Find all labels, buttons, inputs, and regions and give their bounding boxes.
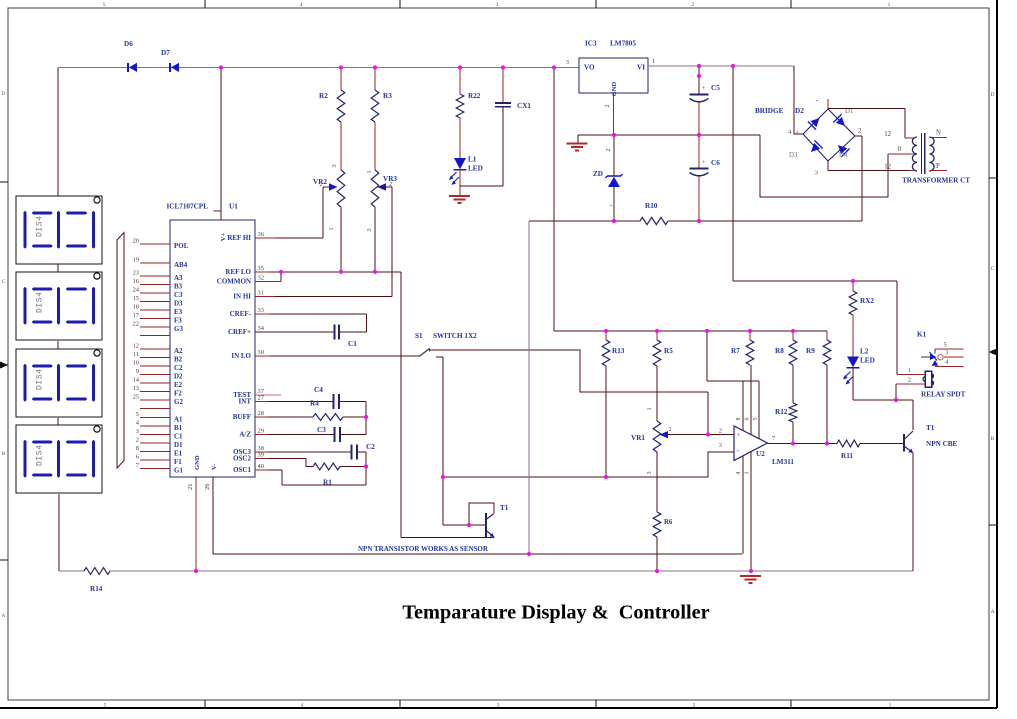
label sensor note bbox=[358, 545, 489, 553]
LED L1 light arrows bbox=[449, 172, 459, 185]
svg-text:1: 1 bbox=[366, 170, 373, 173]
resistor R12 bbox=[775, 403, 797, 422]
svg-text:4: 4 bbox=[736, 472, 742, 475]
resistor RX2 bbox=[849, 281, 874, 357]
resistor R9 bbox=[806, 331, 831, 444]
relay K1 contacts bbox=[921, 349, 943, 366]
svg-text:39: 39 bbox=[258, 452, 264, 459]
svg-text:N: N bbox=[936, 130, 941, 137]
svg-text:R7: R7 bbox=[731, 347, 740, 355]
svg-text:RELAY SPDT: RELAY SPDT bbox=[921, 391, 966, 399]
svg-text:U1: U1 bbox=[229, 203, 238, 211]
svg-text:1: 1 bbox=[908, 367, 911, 374]
svg-text:G2: G2 bbox=[174, 398, 183, 406]
IC U1 labels bbox=[166, 203, 238, 242]
resistor R22 bbox=[456, 68, 481, 119]
resistor R10 bbox=[640, 202, 668, 225]
svg-text:B2: B2 bbox=[174, 356, 183, 364]
svg-text:A/Z: A/Z bbox=[239, 431, 251, 439]
svg-text:E3: E3 bbox=[174, 308, 183, 316]
wire unreg mid drop (mauve) bbox=[528, 221, 530, 554]
ground (7805) bbox=[567, 135, 588, 151]
svg-text:NPN TRANSISTOR WORKS AS SENSOR: NPN TRANSISTOR WORKS AS SENSOR bbox=[358, 545, 489, 553]
svg-text:TRANSFORMER CT: TRANSFORMER CT bbox=[902, 177, 970, 185]
svg-text:1: 1 bbox=[889, 703, 892, 709]
svg-text:C: C bbox=[2, 279, 6, 285]
wire R11 to T1 base bbox=[860, 443, 899, 445]
bus (display bus) bbox=[117, 233, 124, 469]
svg-text:26: 26 bbox=[204, 484, 211, 490]
svg-text:D3: D3 bbox=[174, 300, 183, 308]
svg-text:L1: L1 bbox=[468, 156, 477, 164]
svg-text:R11: R11 bbox=[841, 452, 853, 460]
resistor R14 bbox=[84, 568, 110, 593]
svg-text:C1: C1 bbox=[348, 340, 357, 348]
svg-text:2: 2 bbox=[669, 426, 672, 433]
svg-text:Temparature Display & Control: Temparature Display & Controller bbox=[402, 602, 709, 624]
capacitor C4 bbox=[314, 386, 339, 409]
svg-text:3: 3 bbox=[497, 703, 500, 709]
wire S1 throw2 down bbox=[436, 357, 443, 525]
transistor T1 (sensor) bbox=[486, 504, 509, 537]
transformer right pins bbox=[930, 130, 948, 171]
svg-text:IN HI: IN HI bbox=[233, 293, 251, 301]
svg-text:C6: C6 bbox=[711, 159, 720, 167]
svg-text:12: 12 bbox=[884, 131, 891, 138]
svg-text:5: 5 bbox=[103, 2, 106, 8]
wire rail-221 bbox=[529, 220, 862, 222]
wire osc right tie bbox=[365, 402, 367, 435]
svg-text:OSC1: OSC1 bbox=[233, 466, 251, 474]
wire TEST stub pin37 bbox=[255, 394, 281, 396]
potentiometer VR3 bbox=[366, 170, 397, 232]
svg-text:R13: R13 bbox=[612, 347, 625, 355]
svg-text:3: 3 bbox=[331, 164, 338, 167]
svg-text:3: 3 bbox=[945, 350, 948, 357]
IC U1 box bbox=[170, 220, 255, 477]
capacitor CX1 bbox=[495, 68, 531, 111]
label 7805 pin3 bbox=[566, 59, 569, 66]
op-amp U2 LM311 bbox=[734, 426, 794, 466]
svg-text:R3: R3 bbox=[383, 92, 392, 100]
svg-text:C2: C2 bbox=[366, 443, 375, 451]
LED L2 bbox=[847, 348, 875, 368]
svg-text:D7: D7 bbox=[161, 49, 170, 57]
wire VR3 wiper to IN HI pin31 bbox=[255, 187, 392, 297]
svg-text:C3: C3 bbox=[317, 426, 326, 434]
svg-text:GND: GND bbox=[611, 81, 618, 96]
wire 7805 VI rail bbox=[648, 65, 794, 67]
7-segment display DIS4 (box 4) bbox=[16, 425, 102, 493]
svg-text:F3: F3 bbox=[174, 317, 182, 325]
wire U1 pin26 to sensor rail bbox=[212, 477, 214, 554]
resistor R3 bbox=[371, 68, 392, 123]
svg-text:1: 1 bbox=[888, 2, 891, 8]
border zone tick marks bbox=[205, 0, 791, 708]
svg-text:20: 20 bbox=[133, 237, 139, 244]
zener diode ZD bbox=[593, 135, 623, 221]
svg-text:32: 32 bbox=[258, 274, 264, 281]
svg-text:2: 2 bbox=[319, 181, 322, 188]
svg-text:3: 3 bbox=[136, 428, 139, 435]
svg-text:IC3: IC3 bbox=[585, 40, 597, 48]
svg-text:3: 3 bbox=[646, 471, 653, 474]
svg-text:17: 17 bbox=[133, 312, 140, 319]
svg-text:8: 8 bbox=[736, 418, 742, 421]
svg-text:D: D bbox=[2, 91, 6, 97]
capacitor C2 bbox=[352, 443, 376, 460]
svg-text:14: 14 bbox=[133, 376, 140, 383]
wire bridge pin1 top bbox=[828, 99, 905, 138]
svg-text:RX2: RX2 bbox=[860, 297, 874, 305]
svg-text:R12: R12 bbox=[775, 408, 788, 416]
wire OSC1 pin40 loop bbox=[255, 470, 366, 485]
wire gnd rail y135 bbox=[578, 134, 760, 136]
wire CREF+ pin34 bbox=[255, 314, 367, 332]
wire mid rail y331 bbox=[554, 330, 827, 332]
wire OSC2 pin39 to R1 bbox=[255, 459, 366, 467]
svg-text:C1: C1 bbox=[174, 433, 183, 441]
svg-text:R9: R9 bbox=[806, 347, 815, 355]
svg-text:12: 12 bbox=[133, 342, 139, 349]
svg-text:K1: K1 bbox=[917, 331, 927, 339]
svg-text:VO: VO bbox=[584, 64, 595, 72]
svg-text:31: 31 bbox=[258, 290, 264, 297]
wire relay pin1 to rail bbox=[897, 281, 925, 375]
svg-text:2: 2 bbox=[692, 2, 695, 8]
wire sensor emitter loop bbox=[401, 537, 494, 538]
svg-text:VI: VI bbox=[637, 64, 645, 72]
wire CX1 to LED cathode bbox=[460, 107, 503, 187]
wire INT pin27 row bbox=[255, 401, 366, 403]
svg-text:35: 35 bbox=[258, 265, 264, 272]
svg-text:2: 2 bbox=[693, 703, 696, 709]
svg-text:B3: B3 bbox=[174, 283, 183, 291]
wire display chain left bbox=[58, 68, 59, 572]
svg-text:R2: R2 bbox=[319, 92, 328, 100]
op-amp bottom pins 4 1 bbox=[736, 452, 751, 571]
op-amp pin3 label bbox=[719, 442, 722, 449]
wire S1 throw1 to opamp pin2 route bbox=[430, 350, 708, 392]
svg-text:CX1: CX1 bbox=[517, 102, 531, 110]
wire R2 to VR2 bbox=[331, 122, 341, 170]
wire BUFF pin28 row bbox=[255, 416, 366, 418]
svg-text:E2: E2 bbox=[174, 381, 183, 389]
diode D6 bbox=[124, 40, 137, 72]
svg-text:BRIDGE: BRIDGE bbox=[755, 107, 784, 115]
7-segment display DIS4 (box 2) bbox=[16, 272, 102, 340]
svg-text:2: 2 bbox=[908, 377, 911, 384]
svg-text:4: 4 bbox=[301, 703, 304, 709]
wire R6 to bottom rail bbox=[656, 537, 658, 571]
svg-text:B: B bbox=[2, 451, 6, 457]
svg-text:34: 34 bbox=[258, 325, 265, 332]
svg-text:DIS4: DIS4 bbox=[36, 444, 45, 466]
ground (LED L1) bbox=[449, 196, 470, 203]
svg-text:LM7805: LM7805 bbox=[610, 40, 636, 48]
svg-text:A2: A2 bbox=[174, 347, 183, 355]
svg-text:REF LO: REF LO bbox=[225, 268, 251, 276]
resistor R5 bbox=[653, 331, 673, 366]
svg-text:A1: A1 bbox=[174, 416, 183, 424]
svg-text:30: 30 bbox=[258, 349, 264, 356]
svg-text:A: A bbox=[991, 609, 995, 615]
svg-text:LED: LED bbox=[468, 165, 483, 173]
relay K1 coil bbox=[917, 331, 933, 388]
svg-text:2: 2 bbox=[858, 128, 862, 135]
svg-text:5: 5 bbox=[944, 342, 947, 349]
svg-text:R10: R10 bbox=[645, 202, 658, 210]
svg-text:1: 1 bbox=[646, 407, 653, 410]
label RELAY SPDT bbox=[921, 391, 966, 399]
svg-text:25: 25 bbox=[133, 393, 139, 400]
svg-text:P: P bbox=[936, 163, 940, 170]
svg-text:DIS4: DIS4 bbox=[36, 368, 45, 390]
svg-text:GND: GND bbox=[194, 455, 201, 470]
svg-text:24: 24 bbox=[133, 286, 140, 293]
wire A/Z pin29 row bbox=[255, 434, 366, 436]
7-segment display DIS4 (box 3) bbox=[16, 349, 102, 417]
bridge diode D4 bbox=[834, 141, 850, 159]
svg-text:F2: F2 bbox=[174, 390, 182, 398]
wire rail-281 bbox=[733, 67, 897, 282]
wire VR3 bottom to REF LO rail bbox=[374, 207, 376, 272]
wire REF LO rail pin35 bbox=[255, 271, 401, 273]
wire sensor rail V- bbox=[213, 553, 742, 555]
svg-text:0: 0 bbox=[898, 146, 902, 153]
svg-text:1: 1 bbox=[652, 58, 655, 65]
svg-text:SWITCH 1X2: SWITCH 1X2 bbox=[433, 332, 477, 340]
svg-text:VR1: VR1 bbox=[631, 434, 645, 442]
svg-text:ICL7107CPL: ICL7107CPL bbox=[166, 203, 208, 211]
svg-text:3: 3 bbox=[815, 170, 818, 177]
svg-text:16: 16 bbox=[133, 278, 139, 285]
svg-text:19: 19 bbox=[133, 256, 139, 263]
diode D7 bbox=[161, 49, 179, 72]
svg-text:18: 18 bbox=[133, 303, 139, 310]
svg-text:V+: V+ bbox=[220, 233, 227, 242]
resistor R4 bbox=[310, 400, 343, 421]
svg-text:POL: POL bbox=[174, 242, 189, 250]
svg-text:R6: R6 bbox=[664, 519, 673, 526]
wire sensor base route bbox=[443, 524, 486, 526]
svg-text:3: 3 bbox=[366, 228, 373, 231]
svg-text:3: 3 bbox=[496, 2, 499, 8]
wire IN LO pin30 bbox=[255, 355, 419, 357]
wire 7805 GND pin2 bbox=[605, 93, 614, 135]
svg-text:BUFF: BUFF bbox=[233, 413, 251, 421]
svg-text:11: 11 bbox=[133, 351, 139, 358]
wire bridge pin3 bottom bbox=[828, 161, 909, 171]
wire bridge+ feed bbox=[794, 66, 803, 134]
svg-text:3: 3 bbox=[719, 442, 722, 449]
wire U1 pin21 to bottom rail bbox=[195, 477, 197, 571]
svg-text:R14: R14 bbox=[90, 585, 103, 593]
label 7805 pin1 bbox=[652, 58, 655, 65]
svg-text:LM311: LM311 bbox=[772, 458, 794, 466]
resistor R2 bbox=[319, 68, 345, 123]
svg-text:40: 40 bbox=[258, 463, 264, 470]
bridge diode D1 bbox=[833, 108, 853, 130]
transistor T1 (NPN CBE) bbox=[899, 424, 958, 453]
svg-text:4: 4 bbox=[300, 2, 303, 8]
svg-text:B1: B1 bbox=[174, 424, 183, 432]
wire COMMON pin32 tie bbox=[255, 272, 281, 282]
svg-text:3: 3 bbox=[566, 59, 569, 66]
wire LED L2 to relay node bbox=[853, 368, 913, 400]
svg-text:DIS4: DIS4 bbox=[36, 215, 45, 237]
svg-text:DIS4: DIS4 bbox=[36, 291, 45, 313]
wire VR2 wiper to REF HI pin36 bbox=[255, 187, 329, 238]
relay K1 contact pins bbox=[935, 342, 964, 367]
svg-text:D: D bbox=[991, 92, 995, 98]
svg-text:2: 2 bbox=[136, 436, 139, 443]
svg-text:15: 15 bbox=[133, 295, 139, 302]
resistor R6 bbox=[653, 512, 673, 537]
IC U1 right pin names and numbers bbox=[217, 231, 265, 474]
wire relay node to T1 collector bbox=[912, 400, 914, 430]
switch S1 (SPDT 1X2) bbox=[415, 332, 477, 357]
wire U1 V+ drop bbox=[220, 68, 222, 221]
svg-text:21: 21 bbox=[187, 484, 194, 490]
LED L1 bbox=[454, 156, 483, 173]
bridge rectifier outline bbox=[755, 107, 855, 161]
IC U1 bottom pins bbox=[187, 455, 218, 490]
wire T1 emitter to bottom rail bbox=[912, 453, 914, 572]
capacitor C5 (polarized) bbox=[690, 66, 721, 135]
border zone numbers bbox=[103, 2, 892, 709]
resistor R1 bbox=[313, 463, 340, 486]
wire V+ top rail (pink) bbox=[58, 67, 579, 69]
svg-text:5: 5 bbox=[104, 703, 107, 709]
svg-text:22: 22 bbox=[133, 320, 139, 327]
svg-text:CREF-: CREF- bbox=[230, 310, 252, 318]
svg-text:2: 2 bbox=[606, 149, 612, 152]
svg-text:CREF+: CREF+ bbox=[228, 328, 251, 336]
capacitor C6 (polarized) bbox=[690, 135, 721, 221]
svg-text:C: C bbox=[991, 266, 995, 272]
svg-text:C3: C3 bbox=[174, 291, 183, 299]
wire bottom rail (mauve) bbox=[59, 570, 913, 572]
7-segment display DIS4 (box 1) bbox=[16, 196, 102, 264]
svg-text:L2: L2 bbox=[860, 348, 869, 356]
svg-text:G3: G3 bbox=[174, 325, 183, 333]
wire 392 to pin2 drop bbox=[707, 392, 709, 435]
svg-text:B: B bbox=[991, 436, 995, 442]
wire rail REF LO mid (x554) bbox=[553, 68, 555, 332]
svg-text:5: 5 bbox=[136, 411, 139, 418]
svg-text:T1: T1 bbox=[926, 424, 935, 432]
resistor R11 bbox=[837, 440, 860, 460]
svg-text:ZD: ZD bbox=[593, 170, 603, 178]
wire VR1 wiper to opamp pin2 bbox=[668, 428, 734, 435]
svg-text:A: A bbox=[2, 613, 6, 619]
svg-text:D2: D2 bbox=[795, 107, 804, 115]
wire R12 to output bbox=[792, 422, 794, 444]
svg-text:D1: D1 bbox=[845, 108, 853, 115]
svg-text:R22: R22 bbox=[468, 92, 481, 100]
svg-text:R5: R5 bbox=[664, 347, 673, 355]
wire LED L1 to ground bbox=[459, 170, 461, 196]
svg-text:T1: T1 bbox=[500, 504, 509, 512]
wire rail-477 opamp pin3 bbox=[443, 452, 734, 477]
capacitor C1 bbox=[335, 325, 358, 349]
svg-text:10: 10 bbox=[133, 359, 139, 366]
svg-text:IN LO: IN LO bbox=[231, 352, 251, 360]
svg-text:36: 36 bbox=[258, 231, 264, 238]
wire VR2 bottom to REF LO rail bbox=[340, 207, 342, 272]
transformer CT bbox=[902, 133, 970, 185]
transformer left pins bbox=[884, 131, 913, 171]
bridge pin labels bbox=[788, 95, 862, 177]
bridge diode D2 bbox=[795, 107, 824, 130]
svg-text:33: 33 bbox=[258, 307, 264, 314]
wire gnd rail down right bbox=[760, 135, 888, 197]
svg-text:C2: C2 bbox=[174, 364, 183, 372]
svg-text:D6: D6 bbox=[124, 40, 133, 48]
wire bridge pin2 right bbox=[855, 136, 862, 221]
svg-text:D2: D2 bbox=[174, 373, 183, 381]
wire R5 to VR1 bbox=[646, 366, 657, 421]
svg-text:2: 2 bbox=[719, 428, 722, 435]
svg-text:6: 6 bbox=[745, 418, 751, 421]
svg-text:R8: R8 bbox=[775, 347, 784, 355]
svg-text:13: 13 bbox=[133, 385, 139, 392]
wire op-amp output bbox=[768, 435, 838, 444]
potentiometer VR2 bbox=[313, 170, 345, 231]
right edge alignment arrow bbox=[989, 349, 998, 356]
svg-text:U2: U2 bbox=[756, 450, 765, 458]
svg-text:+: + bbox=[796, 130, 800, 137]
svg-text:8: 8 bbox=[136, 445, 139, 452]
svg-text:28: 28 bbox=[258, 410, 264, 417]
svg-text:D3: D3 bbox=[789, 152, 798, 159]
wire CREF- pin33 bbox=[255, 313, 367, 315]
wire R3 to VR3 bbox=[366, 122, 375, 174]
wire R22 to LED L1 bbox=[459, 118, 461, 158]
svg-text:NPN CBE: NPN CBE bbox=[926, 440, 958, 448]
op-amp top pins 8 6 5 bbox=[707, 331, 759, 439]
svg-text:LED: LED bbox=[860, 357, 875, 365]
svg-text:D4: D4 bbox=[839, 152, 848, 159]
svg-text:COMMON: COMMON bbox=[217, 278, 251, 286]
wire OSC3 pin38 row bbox=[255, 451, 366, 453]
svg-text:A3: A3 bbox=[174, 274, 183, 282]
resistor R7 bbox=[731, 331, 754, 365]
svg-text:REF HI: REF HI bbox=[227, 234, 251, 242]
wire R8 to R12 bbox=[792, 365, 794, 403]
wire REF LO down to sensor bbox=[400, 272, 402, 538]
svg-text:6: 6 bbox=[136, 453, 139, 460]
capacitor C3 bbox=[317, 426, 340, 442]
svg-text:C5: C5 bbox=[711, 84, 720, 92]
svg-text:R4: R4 bbox=[310, 400, 319, 408]
svg-text:S1: S1 bbox=[415, 332, 423, 340]
svg-text:V-: V- bbox=[211, 464, 218, 470]
svg-text:12: 12 bbox=[884, 164, 891, 171]
svg-text:E1: E1 bbox=[174, 450, 183, 458]
svg-text:G1: G1 bbox=[174, 467, 183, 475]
left edge alignment arrow bbox=[0, 362, 9, 369]
svg-text:9: 9 bbox=[136, 368, 139, 375]
svg-text:C4: C4 bbox=[314, 386, 323, 394]
border zone letters bbox=[0, 91, 997, 619]
svg-text:AB4: AB4 bbox=[174, 261, 188, 269]
svg-text:F1: F1 bbox=[174, 458, 182, 466]
svg-text:INT: INT bbox=[239, 398, 252, 406]
svg-text:23: 23 bbox=[133, 269, 139, 276]
wire sensor collector tie bbox=[469, 503, 494, 525]
